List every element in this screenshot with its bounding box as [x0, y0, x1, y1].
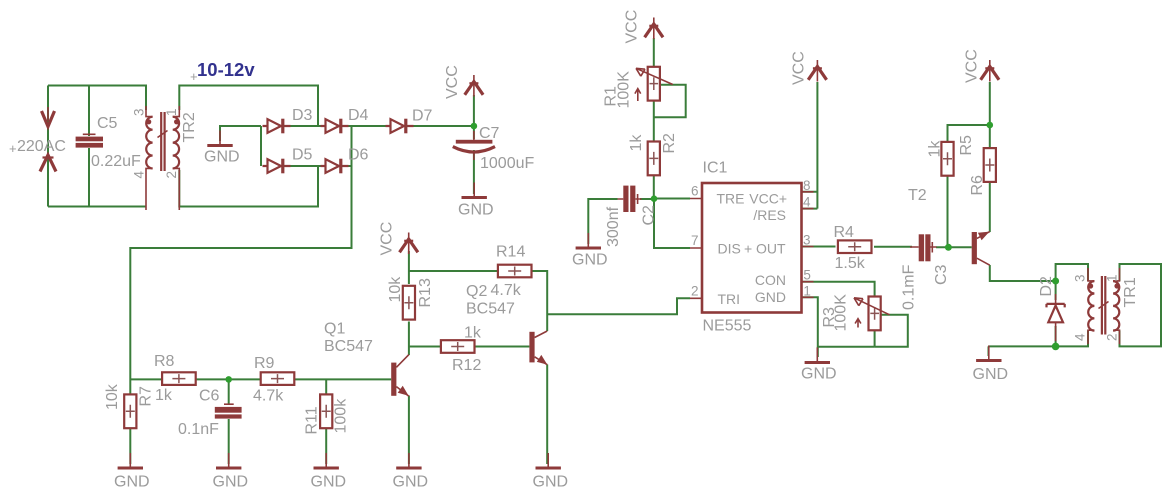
diode D6: [321, 159, 349, 174]
supply VCC at C7: [465, 75, 483, 97]
wire R11 branch: [325, 379, 327, 394]
diode D7: [386, 119, 414, 134]
svg-text:1000uF: 1000uF: [480, 155, 534, 172]
svg-text:VCC: VCC: [624, 10, 641, 44]
svg-text:5: 5: [803, 268, 811, 283]
wire R12 left: [409, 346, 440, 348]
wire R11 to GND: [325, 428, 327, 464]
AC source bottom arrow: [40, 155, 56, 172]
svg-text:GND: GND: [801, 366, 837, 383]
svg-text:C5: C5: [97, 115, 118, 132]
supply VCC mid: [400, 233, 418, 255]
svg-text:C7: C7: [479, 125, 500, 142]
wire AC loop left vertical: [47, 86, 49, 207]
svg-text:C6: C6: [199, 388, 220, 405]
svg-text:2: 2: [164, 171, 179, 179]
svg-text:/RES: /RES: [753, 207, 786, 223]
wire D4 to D7: [341, 125, 393, 127]
capacitor C5: [83, 133, 96, 135]
svg-text:D4: D4: [348, 107, 369, 124]
resistor R5: [941, 142, 953, 176]
supply VCC R1: [645, 18, 663, 40]
svg-text:TRE: TRE: [717, 191, 745, 207]
svg-text:0.1mF: 0.1mF: [901, 264, 918, 310]
resistor R11: [320, 394, 332, 428]
svg-text:TRI: TRI: [718, 291, 741, 307]
svg-text:100k: 100k: [333, 398, 350, 434]
ground R7: [118, 453, 143, 468]
ground C7: [462, 183, 487, 198]
wire D3-D4 row: [283, 125, 328, 127]
svg-text:GND: GND: [311, 474, 347, 491]
wire VCC to C7: [473, 95, 475, 139]
svg-text:3: 3: [132, 108, 147, 116]
AC source 220AC top arrow: [47, 107, 49, 121]
wire TR1 bottom row: [989, 330, 1089, 346]
wire R14 feed: [409, 270, 498, 272]
svg-text:Q1: Q1: [324, 321, 345, 338]
svg-text:0.1nF: 0.1nF: [178, 421, 219, 438]
supply VCC right: [981, 60, 999, 82]
wire bridge output down: [130, 126, 351, 395]
diode D2: [1047, 294, 1065, 341]
svg-text:R11: R11: [304, 406, 321, 434]
ground R11: [314, 453, 339, 468]
svg-text:1k: 1k: [464, 325, 482, 342]
svg-text:GND: GND: [533, 474, 569, 491]
resistor R4: [838, 240, 872, 253]
transistor T2: [972, 232, 990, 266]
svg-text:R14: R14: [496, 244, 525, 261]
wire VCC to 555 VCC+/RES: [802, 82, 818, 209]
svg-text:R4: R4: [834, 224, 855, 241]
wire R14 to Q2 collector: [532, 271, 547, 331]
ground C2: [576, 233, 601, 248]
svg-text:D5: D5: [292, 147, 313, 164]
wire R1 to R2: [653, 100, 655, 142]
svg-text:1: 1: [164, 108, 179, 116]
ground TR1: [976, 346, 1001, 361]
wire R6 to T2 emitter: [989, 183, 991, 233]
svg-text:CON: CON: [755, 272, 786, 288]
node C2 R2: [651, 195, 658, 202]
svg-text:GND: GND: [572, 252, 608, 269]
svg-text:300nf: 300nf: [605, 206, 622, 247]
resistor R14: [498, 265, 532, 278]
svg-text:VCC: VCC: [791, 51, 808, 85]
svg-text:+: +: [744, 241, 752, 257]
resistor R9: [261, 372, 295, 385]
wire C7 to GND: [473, 150, 475, 194]
svg-text:NE555: NE555: [703, 318, 752, 335]
svg-text:0.22uF: 0.22uF: [91, 153, 141, 170]
capacitor C3: [910, 234, 937, 261]
svg-text:GND: GND: [393, 474, 429, 491]
wire AC loop bottom: [48, 206, 146, 208]
svg-text:4.7k: 4.7k: [253, 388, 284, 405]
wire C6 to GND: [228, 419, 230, 464]
wire R3 GND stub: [817, 347, 819, 357]
wire node to 555 TRE: [654, 198, 690, 200]
wire TR1 GND stub: [988, 346, 990, 356]
resistor R2: [648, 142, 660, 176]
svg-text:R8: R8: [154, 353, 175, 370]
wire Q1 emitter to GND: [408, 396, 410, 465]
wire D6 cathode to junction: [341, 165, 352, 167]
svg-text:8: 8: [803, 178, 811, 193]
wire GND to bridge anodes: [220, 126, 261, 141]
svg-text:GND: GND: [458, 202, 494, 219]
svg-text:R13: R13: [417, 278, 434, 307]
wire C2 left to GND: [588, 199, 617, 244]
wire VCC to R1: [653, 38, 655, 67]
wire R1 wiper loop: [654, 85, 686, 118]
svg-text:Q2: Q2: [466, 283, 487, 300]
svg-text:D7: D7: [412, 108, 433, 125]
svg-text:R9: R9: [254, 355, 275, 372]
resistor R7: [124, 394, 136, 428]
wire VCC right node: [989, 82, 991, 148]
diode D3: [263, 119, 291, 134]
resistor R13: [403, 286, 415, 320]
diode D4: [321, 119, 349, 134]
svg-text:D6: D6: [348, 147, 369, 164]
ground Q2: [536, 453, 561, 468]
op-amp IC1 NE555: [690, 183, 814, 313]
svg-text:GND: GND: [114, 474, 150, 491]
svg-text:4.7k: 4.7k: [491, 282, 522, 299]
ground bridge: [207, 131, 232, 146]
wire R4 to C3: [874, 246, 912, 248]
svg-text:TR2: TR2: [181, 112, 198, 142]
wire node to R5: [948, 125, 990, 143]
capacitor C2: [618, 186, 642, 212]
diode D5: [263, 159, 291, 174]
resistor R8: [162, 372, 196, 385]
svg-text:1: 1: [1105, 274, 1120, 282]
transformer TR2: [146, 106, 179, 210]
wire R3 wiper loop: [875, 315, 908, 347]
svg-text:OUT: OUT: [756, 241, 786, 257]
wire TR2 pin1 to bridge top: [179, 86, 318, 127]
svg-text:GND: GND: [973, 366, 1009, 383]
svg-text:100K: 100K: [833, 294, 850, 332]
svg-text:3: 3: [803, 233, 811, 248]
svg-text:D2: D2: [1038, 276, 1055, 297]
svg-text:4: 4: [803, 195, 811, 210]
wire R3 bottom stub: [874, 330, 876, 347]
node C7: [471, 123, 478, 130]
svg-text:10k: 10k: [387, 276, 404, 303]
ground R3: [805, 348, 830, 363]
wire node to 555 DIS: [654, 199, 690, 248]
svg-text:2: 2: [691, 283, 699, 298]
wire TR2 pin2 to bridge bottom: [179, 166, 318, 207]
resistor R6: [984, 148, 996, 182]
wire C2 right to node: [640, 198, 654, 200]
svg-text:GND: GND: [204, 149, 240, 166]
wire AC loop top: [48, 86, 146, 111]
svg-text:6: 6: [691, 184, 699, 199]
svg-text:VCC: VCC: [964, 49, 981, 83]
node D2 TR1 bottom: [1052, 343, 1060, 351]
transistor Q1: [391, 355, 409, 397]
wire T2 collector down: [990, 265, 1056, 281]
wire 555 CON to R3: [802, 282, 875, 297]
svg-text:2: 2: [1105, 333, 1120, 341]
svg-text:C2: C2: [641, 205, 658, 226]
resistor R12: [441, 340, 475, 353]
svg-text:VCC: VCC: [444, 65, 461, 99]
node T2 D2: [1052, 278, 1059, 285]
svg-text:7: 7: [691, 233, 699, 248]
transformer TR1: [1088, 268, 1120, 344]
svg-text:BC547: BC547: [466, 301, 515, 318]
svg-text:+: +: [9, 141, 17, 156]
svg-text:VCC+: VCC+: [749, 191, 787, 207]
node R8 R9 C6: [225, 376, 232, 383]
svg-text:R2: R2: [661, 133, 678, 154]
wire R2 to node: [653, 174, 655, 198]
wire D2 top node to TR1 pin3: [1056, 264, 1088, 281]
wire C6 branch: [228, 379, 230, 404]
wire R7 to GND: [129, 428, 131, 464]
svg-text:R7: R7: [138, 386, 155, 407]
svg-text:4: 4: [132, 171, 147, 179]
svg-text:R5: R5: [958, 135, 975, 156]
wire 555 OUT to R4: [802, 246, 836, 248]
supply VCC 555: [808, 60, 826, 82]
svg-text:D3: D3: [292, 107, 313, 124]
capacitor C6: [224, 403, 234, 405]
svg-text:100K: 100K: [616, 71, 633, 109]
svg-text:3: 3: [1073, 274, 1088, 282]
wire VCC to R13: [408, 251, 410, 284]
svg-text:GND: GND: [213, 474, 249, 491]
ground Q1: [396, 453, 421, 468]
svg-text:1k: 1k: [155, 387, 173, 404]
potentiometer R1 100K: [635, 67, 673, 101]
wire C5 branch bottom: [88, 148, 90, 207]
wire D2 vertical: [1055, 281, 1057, 346]
wire D7 to C7 node: [406, 125, 474, 127]
wire R5 to C3 node: [947, 175, 950, 247]
svg-text:220AC: 220AC: [17, 138, 66, 155]
node VCC R5 R6: [987, 122, 994, 129]
wire R13 to Q1 collector: [408, 322, 410, 356]
wire C3 to T2 base: [936, 246, 972, 248]
svg-text:R6: R6: [969, 175, 986, 196]
svg-text:R12: R12: [452, 357, 481, 374]
svg-text:10k: 10k: [104, 383, 121, 410]
svg-text:VCC: VCC: [379, 222, 396, 256]
transistor Q2: [529, 331, 547, 365]
wire C5 branch top: [88, 86, 90, 137]
svg-text:1k: 1k: [927, 140, 944, 158]
wire bridge anode column: [260, 126, 262, 166]
svg-text:1.5k: 1.5k: [835, 255, 866, 272]
wire Q2 collector to 555 TRI: [547, 298, 690, 314]
wire 555 GND pin to R3 bottom: [802, 297, 875, 347]
svg-text:GND: GND: [755, 289, 786, 305]
svg-text:4: 4: [1073, 333, 1088, 341]
svg-text:10-12v: 10-12v: [197, 59, 255, 80]
svg-text:DIS: DIS: [718, 241, 741, 257]
svg-text:+: +: [190, 69, 198, 84]
svg-text:1: 1: [803, 283, 811, 298]
wire Q2 emitter to GND: [546, 365, 548, 465]
node C3 R5 T2: [945, 244, 952, 251]
svg-text:IC1: IC1: [703, 160, 728, 177]
svg-text:C3: C3: [933, 264, 950, 285]
wire R12 right to Q2 base: [476, 346, 530, 348]
svg-text:BC547: BC547: [324, 338, 373, 355]
ground C6: [216, 453, 241, 468]
wire base row R8 R9: [130, 378, 391, 380]
capacitor C7: [473, 131, 475, 140]
potentiometer R3 100K: [854, 297, 890, 331]
wire D5-D6 row: [283, 165, 328, 167]
svg-text:TR1: TR1: [1122, 277, 1139, 307]
wire TR1 pin1 loop: [1120, 264, 1162, 346]
svg-text:1k: 1k: [628, 134, 645, 152]
svg-text:T2: T2: [908, 187, 927, 204]
